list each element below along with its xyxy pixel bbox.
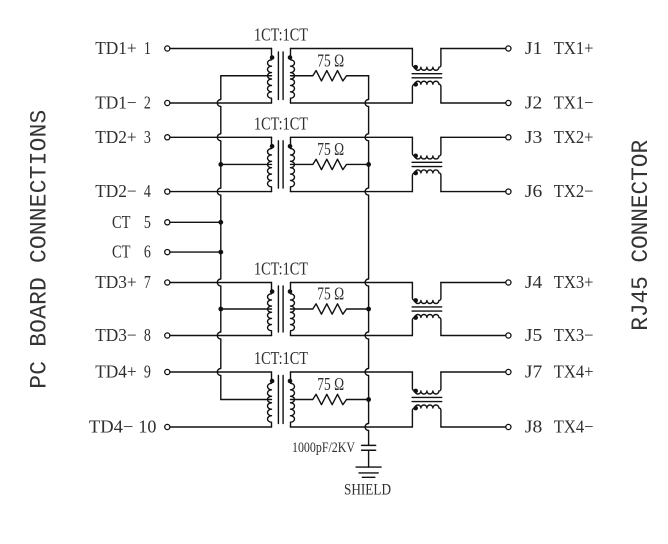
svg-text:75 Ω: 75 Ω (317, 50, 344, 70)
capacitor C1 top plate (362, 444, 376, 446)
wire pin 2 to T1 primary bottom (170, 102, 272, 104)
terminal J5 (506, 333, 511, 338)
terminal pin 2 (TD1−) (165, 100, 170, 105)
terminal J2 (506, 100, 511, 105)
choke L1 bottom winding (412, 81, 441, 103)
svg-text:CT: CT (112, 242, 131, 262)
svg-text:9: 9 (144, 362, 151, 382)
wire T2 primary center tap to CT bus (221, 163, 272, 165)
choke L3 bottom winding (412, 315, 441, 336)
svg-text:8: 8 (144, 325, 151, 345)
svg-text:TD4−: TD4− (89, 417, 134, 437)
choke L3 top phase dot (413, 298, 418, 303)
wire T3 secondary bottom to choke L3 (291, 335, 413, 337)
resistor R1 75 ohm (T1 secondary CT to cap bus) (291, 71, 369, 81)
wire T1 secondary top to choke L1 (291, 48, 413, 50)
wire pin 8 to T3 primary bottom (170, 335, 272, 337)
svg-text:TX4+: TX4+ (554, 362, 594, 382)
wire capacitor bus (right vertical, hops over secondary wires) (365, 76, 368, 446)
wire pin 10 to T4 primary bottom (170, 426, 272, 428)
terminal pin 5 (CT) (165, 220, 170, 225)
svg-text:TX3−: TX3− (554, 325, 594, 345)
svg-text:J6: J6 (525, 181, 543, 201)
choke L2 bottom phase dot (413, 171, 418, 176)
choke L2 top winding (412, 137, 441, 159)
choke L4 bottom phase dot (413, 406, 418, 411)
svg-text:5: 5 (144, 212, 151, 232)
transformer T2 secondary winding (right) (291, 137, 295, 191)
choke L4 top phase dot (413, 389, 418, 394)
svg-text:7: 7 (144, 272, 151, 292)
wire choke L3 to J5 (441, 335, 506, 337)
transformer T3 primary winding (left) (268, 283, 272, 336)
junction cap bus / R2 (366, 162, 371, 167)
svg-text:3: 3 (144, 127, 151, 147)
svg-text:1CT:1CT: 1CT:1CT (254, 259, 308, 279)
svg-text:PC BOARD CONNECTIONS: PC BOARD CONNECTIONS (26, 110, 52, 389)
svg-text:TD4+: TD4+ (95, 362, 137, 382)
svg-text:J2: J2 (525, 93, 542, 113)
svg-text:TX2+: TX2+ (554, 127, 594, 147)
choke L2 top phase dot (413, 154, 418, 159)
transformer T3 primary phase dot (270, 289, 275, 294)
transformer T4 core (278, 376, 283, 424)
terminal pin 3 (TD2+) (165, 135, 170, 140)
svg-text:TX2−: TX2− (554, 181, 594, 201)
svg-text:1CT:1CT: 1CT:1CT (254, 348, 308, 368)
terminal pin 6 (CT) (165, 250, 170, 255)
transformer T1 core (278, 52, 283, 100)
svg-text:J4: J4 (525, 272, 543, 292)
junction CT bus / T3 center tap (218, 307, 223, 312)
terminal J7 (506, 369, 511, 374)
junction cap bus / R4 (366, 397, 371, 402)
wire T1 secondary bottom to choke L1 (291, 102, 413, 104)
choke L3 core (412, 307, 442, 311)
choke L4 core (412, 397, 442, 401)
wire T4 secondary top to choke L4 (291, 371, 413, 373)
wire choke L1 to J1 (441, 48, 506, 50)
svg-text:CT: CT (112, 212, 131, 232)
choke L1 top winding (412, 49, 441, 71)
transformer T4 primary winding (left) (267, 372, 271, 427)
transformer T1 primary phase dot (270, 55, 275, 60)
terminal J4 (506, 280, 511, 285)
transformer T4 secondary phase dot (288, 379, 293, 384)
svg-text:TD2−: TD2− (95, 181, 137, 201)
svg-text:6: 6 (144, 242, 151, 262)
junction CT bus / pin 5 (218, 220, 223, 225)
transformer T2 primary winding (left) (267, 137, 271, 191)
transformer T4 secondary winding (right) (291, 372, 295, 427)
svg-text:75 Ω: 75 Ω (317, 374, 344, 394)
transformer T2 core (278, 141, 283, 188)
svg-text:1CT:1CT: 1CT:1CT (254, 25, 308, 45)
terminal J6 (506, 189, 511, 194)
svg-text:TD3+: TD3+ (95, 272, 137, 292)
wire choke L4 to J7 (441, 371, 506, 373)
choke L3 bottom phase dot (413, 315, 418, 320)
terminal pin 4 (TD2−) (165, 189, 170, 194)
wire T2 secondary top to choke L2 (291, 136, 413, 138)
wire T4 primary center tap to CT bus (221, 399, 272, 401)
wire T3 secondary top to choke L3 (291, 282, 413, 284)
svg-text:J3: J3 (525, 127, 543, 147)
terminal J3 (506, 135, 511, 140)
wire T3 primary center tap to CT bus (221, 308, 272, 310)
terminal pin 10 (TD4−) (165, 424, 170, 429)
choke L1 core (412, 74, 442, 78)
capacitor C1 bottom plate (362, 449, 376, 451)
choke L3 top winding (412, 283, 441, 304)
terminal pin 8 (TD3−) (165, 333, 170, 338)
svg-text:TX1+: TX1+ (554, 38, 594, 58)
svg-text:75 Ω: 75 Ω (317, 284, 344, 304)
wire capacitor C1 to shield ground (368, 450, 370, 467)
svg-text:10: 10 (138, 417, 156, 437)
wire pin 7 to T3 primary top (170, 282, 272, 284)
terminal pin 9 (TD4+) (165, 369, 170, 374)
svg-text:1CT:1CT: 1CT:1CT (254, 113, 308, 133)
transformer T1 secondary winding (right) (291, 49, 295, 104)
transformer T2 secondary phase dot (288, 144, 293, 149)
choke L2 bottom winding (412, 170, 441, 192)
wire pin 9 to T4 primary top (170, 371, 272, 373)
ground SHIELD symbol (356, 467, 381, 477)
svg-text:1000pF/2KV: 1000pF/2KV (292, 440, 355, 456)
svg-text:SHIELD: SHIELD (344, 482, 391, 499)
wire choke L3 to J4 (441, 282, 506, 284)
svg-text:TD2+: TD2+ (95, 127, 137, 147)
transformer T3 secondary winding (right) (291, 283, 295, 336)
svg-text:TD1+: TD1+ (95, 38, 137, 58)
terminal pin 1 (TD1+) (165, 46, 170, 51)
transformer T3 secondary phase dot (288, 289, 293, 294)
svg-text:TX3+: TX3+ (554, 272, 594, 292)
transformer T3 core (278, 286, 283, 332)
terminal pin 7 (TD3+) (165, 280, 170, 285)
choke L2 core (412, 162, 442, 166)
svg-text:J1: J1 (525, 38, 542, 58)
terminal J8 (506, 424, 511, 429)
wire pin 4 to T2 primary bottom (170, 191, 272, 193)
junction CT bus / pin 6 (218, 250, 223, 255)
wire pin 6 to CT bus (170, 251, 221, 253)
transformer T1 secondary phase dot (288, 55, 293, 60)
resistor R2 75 ohm (T2 secondary CT to cap bus) (291, 159, 369, 169)
wire T2 secondary bottom to choke L2 (291, 191, 413, 193)
wire T1 primary center tap to CT bus (221, 75, 272, 77)
wire T4 secondary bottom to choke L4 (291, 426, 413, 428)
svg-text:1: 1 (144, 38, 151, 58)
resistor R4 75 ohm (T4 secondary CT to cap bus) (291, 394, 369, 404)
svg-text:TX1−: TX1− (554, 93, 594, 113)
junction CT bus / T2 center tap (218, 162, 223, 167)
svg-text:J7: J7 (525, 362, 543, 382)
resistor R3 75 ohm (T3 secondary CT to cap bus) (291, 304, 369, 314)
junction cap bus / R3 (366, 307, 371, 312)
svg-text:RJ45 CONNECTOR: RJ45 CONNECTOR (628, 140, 654, 331)
wire choke L2 to J6 (441, 191, 506, 193)
wire choke L2 to J3 (441, 136, 506, 138)
wire choke L4 to J8 (441, 426, 506, 428)
transformer T2 primary phase dot (270, 144, 275, 149)
choke L1 top phase dot (413, 65, 418, 70)
choke L4 top winding (412, 372, 441, 394)
svg-text:2: 2 (144, 93, 151, 113)
svg-text:4: 4 (144, 181, 151, 201)
svg-text:TD3−: TD3− (95, 325, 137, 345)
wire CT bus (left vertical, hops over pin wires) (217, 76, 221, 400)
svg-text:75 Ω: 75 Ω (317, 139, 344, 159)
svg-text:J8: J8 (525, 417, 543, 437)
svg-text:J5: J5 (525, 325, 543, 345)
choke L1 bottom phase dot (413, 82, 418, 87)
transformer T4 primary phase dot (270, 379, 275, 384)
wire pin 1 to T1 primary top (170, 48, 272, 50)
wire choke L1 to J2 (441, 102, 506, 104)
choke L4 bottom winding (412, 405, 441, 427)
transformer T1 primary winding (left) (268, 49, 272, 104)
wire pin 3 to T2 primary top (170, 136, 272, 138)
svg-text:TD1−: TD1− (95, 93, 137, 113)
wire pin 5 to CT bus (170, 221, 221, 223)
svg-text:TX4−: TX4− (554, 417, 594, 437)
terminal J1 (506, 46, 511, 51)
